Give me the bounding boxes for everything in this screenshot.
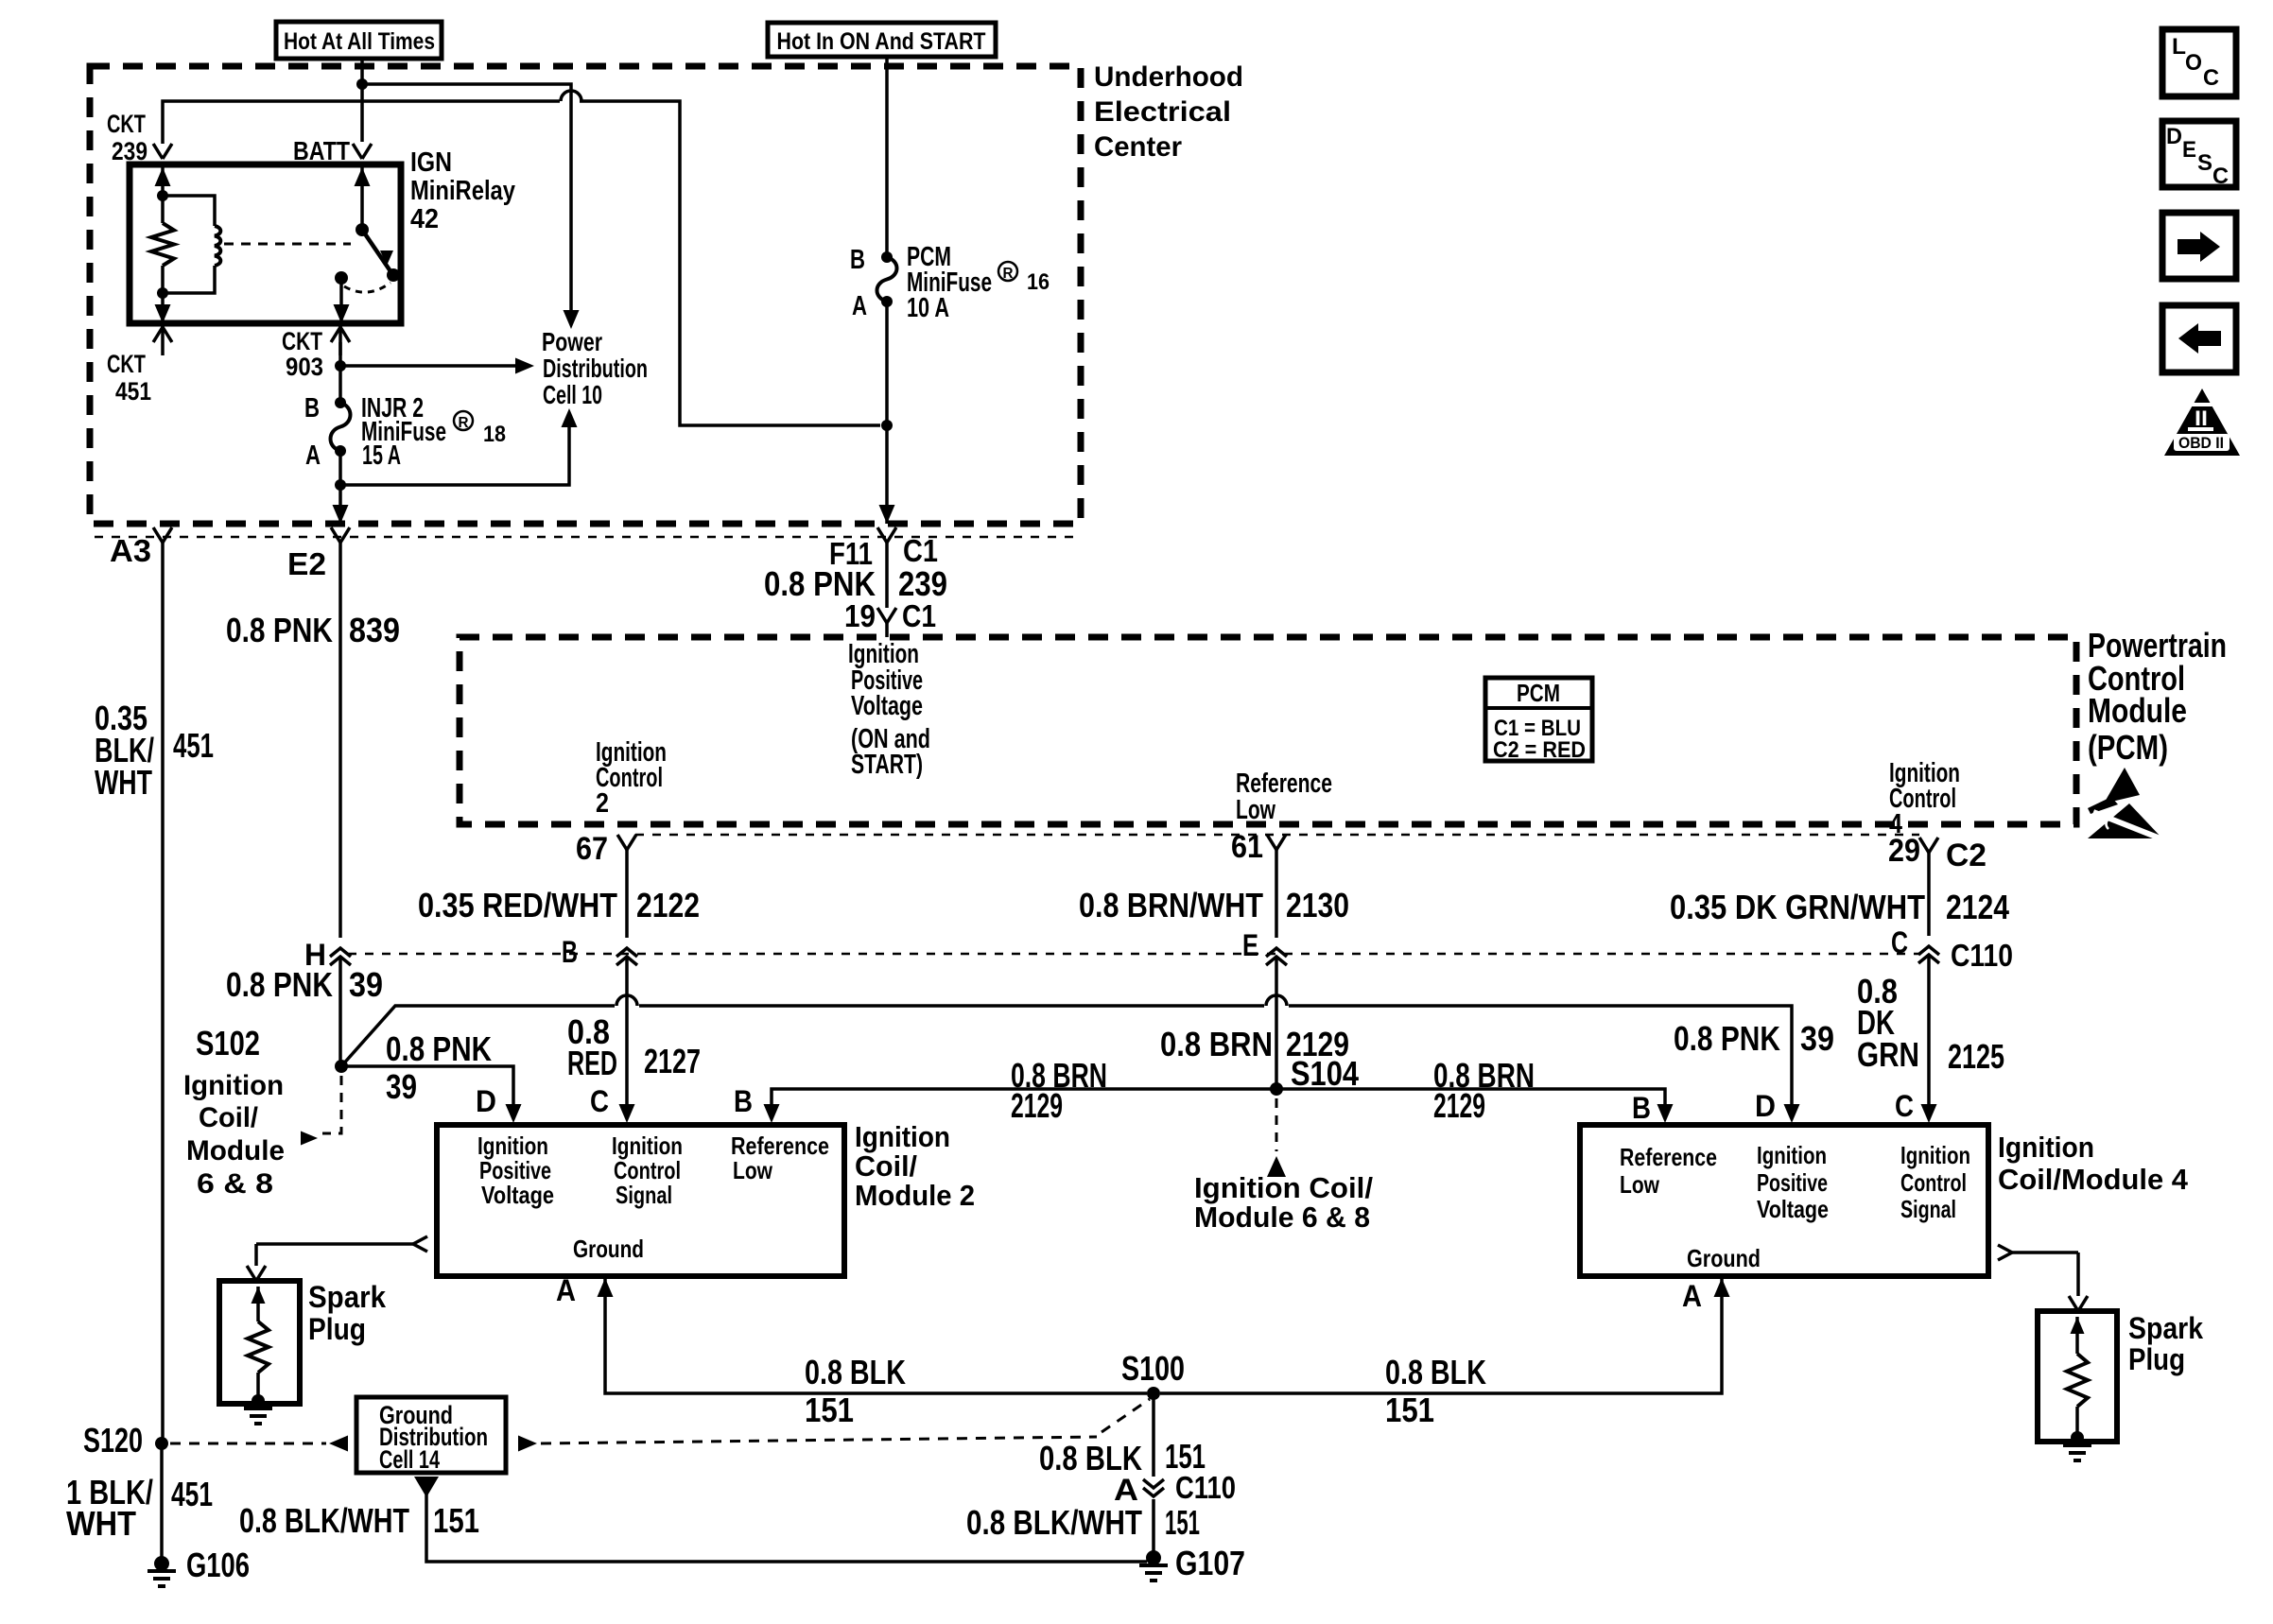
svg-text:OBD II: OBD II [2178,434,2224,452]
hop over power distribution wire [561,91,581,101]
node fuse 18 output branch [335,479,346,491]
label 0.8 DK GRN 2125 [1857,972,2004,1076]
svg-text:R: R [459,415,469,431]
svg-text:C110: C110 [1951,938,2013,973]
svg-text:0.8 BRN/WHT: 0.8 BRN/WHT [1079,886,1263,924]
svg-text:Coil/Module 4: Coil/Module 4 [1998,1163,2189,1196]
dashed wire S120 to ground distribution [170,1436,348,1452]
wire return to power distribution [340,408,578,485]
connector F11 C1 [829,527,938,571]
svg-text:151: 151 [1165,1503,1200,1542]
wire CKT 903 down [338,342,342,403]
label 0.8 PNK 39 (coil 2 branch) [386,1029,492,1106]
svg-text:S120: S120 [83,1421,143,1460]
svg-text:Ignition: Ignition [183,1070,284,1101]
svg-text:B: B [304,393,320,423]
node fuse 16 output junction [881,420,893,431]
svg-text:E2: E2 [287,546,326,581]
connector E2 [287,527,350,581]
relay coil-switch dashed link [224,243,351,246]
svg-text:Power: Power [542,327,602,356]
svg-text:Cell 14: Cell 14 [379,1445,440,1474]
svg-text:0.8 PNK: 0.8 PNK [226,611,333,649]
svg-text:B: B [1632,1091,1651,1125]
svg-text:A: A [1682,1279,1702,1313]
svg-text:151: 151 [433,1501,479,1540]
svg-text:Coil/: Coil/ [855,1149,917,1183]
label 0.8 BRN 2129 (left) [1011,1056,1107,1125]
wire relay coil to CKT 451 [155,293,171,323]
svg-text:Reference: Reference [1620,1143,1717,1171]
fuse PCM MiniFuse 16 [877,251,897,307]
connector C110 cavity E [1242,928,1287,965]
svg-text:Voltage: Voltage [851,691,923,721]
svg-text:PCM: PCM [1517,679,1560,707]
svg-text:Plug: Plug [2128,1342,2185,1376]
wire coil 4 pin A to S100 [1160,1278,1722,1393]
svg-text:15 A: 15 A [362,441,401,471]
svg-text:Cell 10: Cell 10 [543,380,602,409]
wire relay common to CKT 903 [334,278,350,323]
label 0.8 BRN 2129 (right) [1433,1056,1535,1125]
relay IGN MiniRelay 42 box [130,164,401,323]
svg-text:Signal: Signal [1900,1195,1956,1223]
wire CKT 239 feed from fuse 16 output [163,101,880,425]
svg-text:39: 39 [386,1067,417,1106]
spark plug 2 [219,1281,300,1408]
svg-text:0.8 BLK: 0.8 BLK [805,1353,906,1391]
svg-text:Underhood: Underhood [1094,61,1243,93]
svg-text:C: C [1895,1089,1914,1123]
wire 19 into PCM [885,623,889,637]
svg-text:D: D [1755,1089,1776,1123]
svg-text:Voltage: Voltage [481,1181,554,1209]
svg-text:0.8 BLK/WHT: 0.8 BLK/WHT [966,1503,1142,1542]
svg-text:Electrical: Electrical [1094,96,1231,128]
label 0.8 BLK 151 (right) [1385,1353,1486,1429]
svg-text:0.8 PNK: 0.8 PNK [226,965,333,1004]
svg-text:Ignition: Ignition [1900,1141,1970,1169]
svg-text:Module 6 & 8: Module 6 & 8 [1194,1201,1370,1234]
svg-text:Control: Control [1900,1168,1967,1197]
svg-text:2130: 2130 [1286,886,1349,924]
symbol ESD sensitive device [2088,768,2170,842]
wire S102 to coil 2 pin D [341,1066,513,1106]
hop over reference low wire [1266,995,1287,1006]
svg-text:0.35 RED/WHT: 0.35 RED/WHT [418,886,617,924]
svg-text:CKT: CKT [107,350,146,378]
wire ignition control 4 (2124) [1927,853,1931,936]
svg-text:6 & 8: 6 & 8 [197,1168,273,1200]
pin A coil 4 [1682,1278,1730,1313]
svg-text:GRN: GRN [1857,1035,1919,1074]
svg-text:19: 19 [844,598,876,633]
connector A3 [110,527,172,568]
connector BATT [293,136,372,165]
label Reference Low (PCM) [1236,769,1332,825]
relay switch actuation dashed arc [344,283,390,292]
wire ground distribution to G107 [414,1477,1147,1562]
svg-text:START): START) [851,750,923,780]
wire S104 to coil 2 pin B [772,1089,1276,1106]
svg-text:Voltage: Voltage [1757,1195,1829,1223]
connector C110 cavity C [1891,925,2013,973]
dashed stub S102 to coil modules 6 and 8 [301,1076,341,1146]
label box Hot In ON And START [768,23,996,57]
svg-text:2129: 2129 [1011,1086,1063,1125]
svg-text:S102: S102 [196,1024,260,1063]
ground G106 [147,1546,250,1586]
svg-text:Module: Module [186,1135,285,1166]
connector line under PCM [635,834,1919,837]
svg-text:0.8 BLK: 0.8 BLK [1385,1353,1486,1391]
svg-text:Spark: Spark [2128,1311,2203,1345]
spark plug 4 [2038,1311,2117,1444]
ground G107 [1139,1544,1245,1582]
icon DESC [2162,121,2236,189]
svg-text:L: L [2172,34,2186,60]
wire reference low below C110 [1275,957,1278,1089]
relay switch pivot [356,223,369,236]
wire 0.8 PNK 839 (E2 to H) [338,543,342,938]
svg-text:E: E [2182,137,2196,163]
svg-text:2122: 2122 [636,886,700,924]
svg-text:0.8 PNK: 0.8 PNK [1674,1019,1780,1058]
wire branch to power distribution cell 10 [340,358,534,374]
svg-text:451: 451 [171,1475,213,1513]
pin C coil 4 [1895,1089,1937,1123]
pin D coil 4 [1755,1089,1800,1123]
svg-text:Distribution: Distribution [543,354,648,383]
wire fuse 16 to F11 [879,302,895,524]
fuse INJR 2 MiniFuse 18 [331,397,351,457]
table PCM connector colors [1485,678,1592,763]
wire feed to power distribution [362,84,571,310]
svg-text:A: A [852,291,867,321]
label Ignition Control 4 [1889,758,1960,839]
node S120 [83,1421,168,1460]
connector 19 C1 [844,598,936,633]
svg-text:Low: Low [733,1156,773,1184]
pin 67 [576,831,636,867]
label 0.35 DK GRN/WHT 2124 [1670,888,2009,926]
connector CKT 451 [107,323,172,406]
svg-text:451: 451 [115,377,151,406]
connector spark plug 2 [247,1266,266,1281]
svg-text:C2 = RED: C2 = RED [1493,737,1586,763]
connector CKT 903 [282,323,350,381]
svg-text:Low: Low [1620,1170,1660,1199]
svg-text:0.8 BRN: 0.8 BRN [1160,1025,1273,1063]
label box Hot At All Times [276,22,442,59]
svg-text:151: 151 [805,1391,854,1429]
hop over ignition control 2 wire [616,995,637,1006]
wire coil 2 pin A to S100 [605,1278,1147,1393]
svg-text:C2: C2 [1946,838,1987,873]
node S102 [196,1024,348,1073]
connector spark plug 4 [2069,1296,2088,1311]
svg-text:Ignition: Ignition [1757,1141,1827,1169]
wire coil 2 ground to spark plug [256,1236,427,1266]
svg-text:G106: G106 [186,1546,250,1584]
wire H to S102 [338,957,342,1066]
label 0.8 BRN/WHT 2130 [1079,886,1349,924]
svg-text:C1: C1 [903,533,938,568]
wire hot in on and start feed [885,57,889,257]
svg-text:Module: Module [2088,691,2187,730]
svg-text:BATT: BATT [293,136,350,165]
label Ignition Control 2 [596,737,667,819]
svg-text:A: A [305,441,321,471]
box Powertrain Control Module [460,637,2076,824]
connector C110 cavity A [1114,1470,1236,1507]
svg-text:Ignition: Ignition [1998,1131,2094,1164]
wire ignition control 2 below C110 [625,957,629,1106]
label Ignition Positive Voltage (ON and START) [848,639,930,780]
label IGN MiniRelay 42 [410,147,515,234]
label PCM MiniFuse 16 [850,242,1050,323]
label coil 4 pins [1620,1141,1970,1272]
label 0.8 PNK 239 [764,564,947,603]
svg-text:2: 2 [596,788,609,819]
pin B coil 2 [734,1084,780,1123]
svg-text:Hot At All Times: Hot At All Times [284,28,435,55]
label 1 BLK/WHT 451 [66,1473,213,1543]
svg-text:O: O [2185,50,2202,76]
wire hot-at-all-times feed [360,59,364,142]
svg-text:42: 42 [410,204,439,234]
svg-text:Spark: Spark [308,1280,386,1314]
box Ground Distribution Cell 14 [356,1397,506,1474]
label 0.8 PNK 39 (H) [226,965,383,1004]
svg-text:0.8 PNK: 0.8 PNK [764,564,876,603]
label 0.8 BLK 151 (S100 down) [1039,1437,1206,1477]
svg-text:C: C [2203,65,2219,91]
svg-text:Module 2: Module 2 [855,1179,975,1212]
wire coil 4 ground to spark plug [1998,1245,2078,1296]
wire fuse 18 output [333,451,349,524]
label coil 2 pins [477,1132,829,1263]
wire A3 to S120 [161,543,165,1443]
dashed stub S104 to coil modules 6 and 8 [1267,1098,1286,1177]
svg-text:2127: 2127 [644,1042,701,1080]
resistor relay coil suppression [151,196,174,293]
wire S100 down to connector C110 [1152,1393,1155,1477]
icon LOC [2162,29,2236,96]
svg-text:Coil/: Coil/ [199,1102,259,1133]
icon forward arrow [2162,213,2236,279]
svg-text:151: 151 [1385,1391,1434,1429]
node CKT 903 branch [335,360,346,371]
svg-text:RED: RED [567,1044,617,1082]
label 0.35 BLK/WHT 451 [95,699,214,802]
pin 61 [1231,829,1286,865]
svg-text:451: 451 [173,726,214,765]
svg-text:S100: S100 [1121,1349,1185,1388]
icon OBD II [2164,389,2240,456]
node relay coil bottom [157,287,168,299]
label 0.8 BLK/WHT 151 (bottom) [239,1501,479,1540]
svg-text:Low: Low [1236,795,1275,825]
svg-text:39: 39 [349,965,383,1004]
relay switch common contact [335,271,348,285]
svg-text:Hot In ON And START: Hot In ON And START [777,28,986,55]
svg-text:Ground: Ground [1687,1244,1761,1272]
wire ignition control 2 (2122) [625,850,629,938]
label Ignition Coil/Module 2 [855,1120,975,1212]
wire S104 to coil 4 pin B [1276,1089,1665,1106]
svg-text:Signal: Signal [616,1181,672,1209]
relay switch BATT pin wire [355,164,371,230]
svg-text:239: 239 [112,137,147,165]
relay switch arm end [387,268,400,282]
svg-text:A: A [556,1273,576,1307]
svg-text:903: 903 [286,353,323,381]
label 0.8 PNK 39 (coil 4 branch) [1674,1019,1834,1058]
svg-text:G107: G107 [1175,1544,1245,1582]
wire S102 to coil 4 pin D [341,1006,1792,1106]
svg-text:R: R [1003,266,1014,282]
svg-text:10 A: 10 A [907,293,949,323]
svg-text:39: 39 [1800,1019,1834,1058]
svg-text:IGN: IGN [410,147,452,178]
label Spark Plug (left) [308,1280,386,1346]
svg-text:(PCM): (PCM) [2088,728,2168,767]
node S100 [1121,1349,1185,1400]
svg-text:239: 239 [898,564,947,603]
label 0.8 BLK 151 (left) [805,1353,906,1429]
label 0.8 BLK/WHT 151 (G107) [966,1503,1200,1542]
label Ignition Coil/Module 6 & 8 (left) [183,1070,285,1200]
label INJR 2 MiniFuse 18 [304,393,506,471]
svg-text:C: C [2212,164,2229,189]
pin A coil 2 [556,1273,614,1307]
svg-text:67: 67 [576,831,608,867]
box Underhood Electrical Center [90,66,1081,524]
svg-text:29: 29 [1888,833,1920,869]
svg-text:2124: 2124 [1946,888,2009,926]
node relay coil top [157,190,168,201]
svg-text:0.8 BLK: 0.8 BLK [1039,1439,1142,1477]
svg-text:D: D [476,1084,496,1118]
svg-text:A3: A3 [110,533,151,568]
label 0.8 BRN 2129 (S104 top) [1160,1025,1349,1063]
label 0.35 RED/WHT 2122 [418,886,700,924]
pin B coil 4 [1632,1091,1674,1125]
svg-text:A: A [1114,1473,1138,1507]
label Underhood Electrical Center [1094,61,1243,163]
wire C110 to G107 [1152,1499,1155,1558]
svg-text:2125: 2125 [1948,1037,2004,1076]
svg-text:Ignition: Ignition [855,1120,950,1153]
svg-text:2129: 2129 [1433,1086,1485,1125]
svg-text:D: D [2166,124,2182,149]
label Powertrain Control Module (PCM) [2088,626,2227,767]
label 0.8 PNK 839 [226,611,400,649]
svg-text:0.35 DK GRN/WHT: 0.35 DK GRN/WHT [1670,888,1925,926]
dashed wire ground distribution to S100 [518,1399,1150,1452]
relay coil pin wire [155,164,171,196]
node battery feed junction [356,78,368,90]
connector C110 cavity B [562,935,637,969]
wire S120 to G106 [160,1443,164,1564]
svg-text:WHT: WHT [66,1504,136,1543]
node S104 [1270,1054,1359,1096]
svg-text:II: II [2195,406,2208,430]
label Power Distribution Cell 10 [542,327,648,409]
inductor relay coil [163,196,220,293]
svg-text:0.8 BLK/WHT: 0.8 BLK/WHT [239,1501,409,1540]
svg-text:C1: C1 [902,598,936,633]
wire F11 to PCM pin 19 [885,543,889,608]
label Spark Plug (right) [2128,1311,2203,1376]
svg-text:MiniRelay: MiniRelay [410,176,515,206]
svg-text:0.8 PNK: 0.8 PNK [386,1029,492,1068]
pin 29 C2 [1888,833,1987,873]
connector line C110 [348,953,1919,956]
svg-text:16: 16 [1027,269,1050,295]
svg-text:S: S [2197,150,2212,176]
svg-text:B: B [850,245,865,275]
ground spark plug 2 [244,1408,272,1424]
svg-text:CKT: CKT [107,110,146,138]
pin C coil 2 [590,1084,635,1123]
box Ignition Coil/Module 4 [1580,1125,1988,1276]
svg-text:WHT: WHT [95,763,152,802]
svg-text:Ignition Coil/: Ignition Coil/ [1194,1171,1373,1204]
svg-text:18: 18 [483,422,506,447]
label Ignition Coil/Module 6 & 8 (center) [1194,1171,1373,1234]
svg-text:CKT: CKT [282,327,322,355]
label 0.8 RED 2127 [567,1012,701,1082]
wire reference low (2130) [1275,850,1278,938]
svg-text:Center: Center [1094,131,1182,163]
connector CKT 239 [107,110,172,165]
relay switch arm [362,230,393,271]
icon back arrow [2162,305,2236,372]
svg-text:61: 61 [1231,829,1263,865]
svg-text:Plug: Plug [308,1312,366,1346]
connector line under UEC [95,536,1081,539]
svg-text:E: E [1242,928,1258,962]
svg-text:S104: S104 [1291,1054,1359,1093]
arrow to Power Distribution Cell 10 [564,310,580,329]
svg-text:Positive: Positive [1757,1168,1828,1197]
pin D coil 2 [476,1084,522,1123]
svg-text:C110: C110 [1175,1470,1236,1505]
svg-text:B: B [734,1084,753,1118]
connector C110 cavity H [304,938,351,972]
label Ignition Coil/Module 4 [1998,1131,2189,1196]
svg-text:Ground: Ground [573,1235,644,1263]
svg-text:839: 839 [349,611,400,649]
box Ignition Coil/Module 2 [437,1125,844,1276]
wire ignition control 4 below C110 [1927,955,1931,1106]
svg-text:B: B [562,935,578,969]
svg-text:C: C [590,1084,609,1118]
ground spark plug 4 [2063,1445,2091,1460]
